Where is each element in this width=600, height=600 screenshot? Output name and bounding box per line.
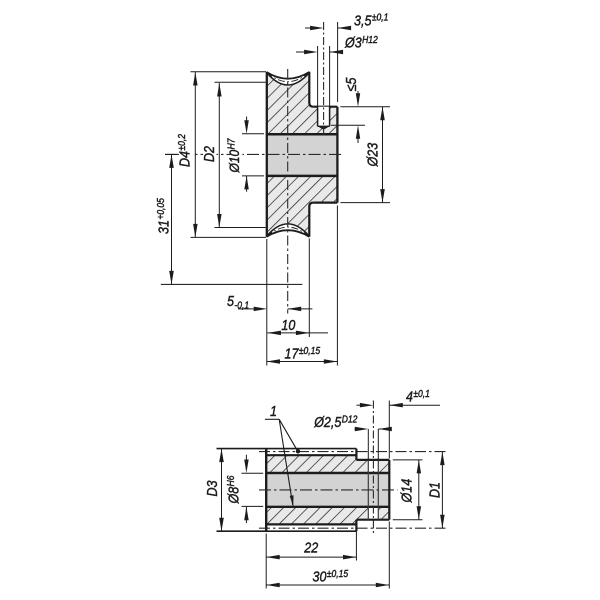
dimension hole depth &le;5 [331, 77, 365, 143]
worm axis centerline [259, 489, 398, 491]
throat crescent bottom (tip/root arcs) [267, 224, 310, 237]
throat crescent top (tip/root arcs) [267, 72, 310, 85]
dimension D1 [427, 452, 445, 529]
item leader 1 [265, 403, 300, 507]
svg-text:10: 10 [281, 317, 295, 333]
cross hole centerline [372, 401, 374, 534]
extension lines below wheel [266, 239, 268, 366]
dimension Ø14 [393, 460, 423, 520]
hole centerline [323, 22, 325, 135]
worm axis reference line [161, 283, 302, 285]
dimension 22 (thread length) [266, 531, 356, 560]
wheel outline: left face [266, 72, 268, 237]
small cylinder Ø14 outline [356, 459, 389, 461]
dimension 10 (rim width) [267, 317, 328, 335]
worm hatched sections [266, 455, 389, 524]
hub top/bottom faces and right face [313, 106, 337, 108]
dimension Ø10 H7 [226, 117, 264, 192]
worm step face [355, 449, 357, 460]
svg-text:D2: D2 [201, 146, 217, 162]
hatched cut section, worm wheel upper half [267, 73, 338, 134]
dimension 17 +-0,15 (overall width) [267, 345, 338, 363]
dimension 5 -0,1 (throat plane position) [227, 293, 312, 311]
wheel axis centerline [165, 153, 344, 155]
worm pitch lines (dash-dot, D1) [259, 451, 447, 453]
svg-text:D1: D1 [427, 482, 443, 498]
cross hole Ø2,5 edges [367, 460, 369, 520]
set screw hole Ø3 in hub [318, 107, 330, 130]
bore Ø10 H7 (open hole band) [266, 134, 338, 176]
svg-text:D3: D3 [204, 480, 220, 496]
svg-text:Ø23: Ø23 [365, 142, 381, 167]
worm bore Ø8 H6 (open hole band) [265, 473, 389, 507]
svg-text:≤5: ≤5 [343, 77, 359, 91]
worm left face [265, 449, 267, 532]
dimension 3,5 +-0,1 (hole position) [305, 12, 388, 102]
hatched cut section, worm wheel lower half [267, 176, 338, 236]
dimension D4 +-0,2 [176, 72, 266, 238]
svg-text:22: 22 [303, 539, 318, 555]
worm tip diameter lines (D3) with extensions [217, 448, 357, 450]
dimension 30 +-0,15 (overall length) [266, 522, 389, 589]
dimension Ø3 H12 [296, 34, 378, 106]
wheel outline: rim right face and hub fillets [309, 72, 313, 107]
dimension D2 [201, 82, 265, 227]
dimension 4 +-0,1 (hole position) [357, 388, 441, 458]
dimension Ø8 H6 [225, 455, 263, 523]
dimension Ø2,5 D12 [313, 414, 392, 460]
dimension 31 +0,05 (centre height) [155, 154, 179, 284]
throat center plane centerline [287, 69, 289, 314]
worm root lines [266, 454, 356, 456]
svg-text:1: 1 [270, 403, 277, 419]
dimension Ø23 [340, 107, 390, 203]
svg-text:Ø14: Ø14 [399, 479, 415, 504]
dimension D3 [204, 449, 224, 532]
